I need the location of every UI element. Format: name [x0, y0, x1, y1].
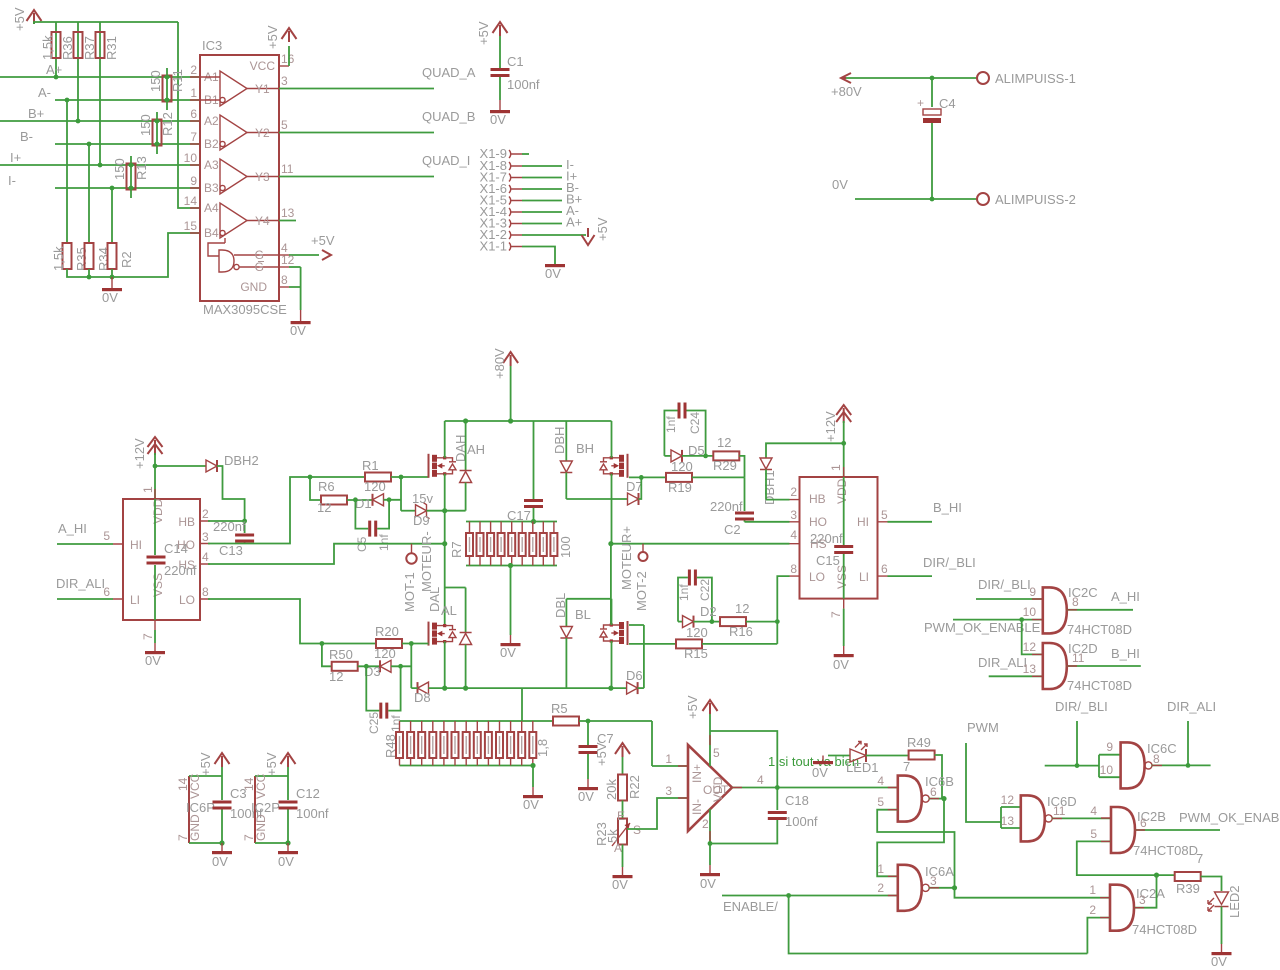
resistor R13	[112, 156, 149, 198]
wire pulldown taps	[67, 100, 112, 244]
diode DBH1	[760, 441, 846, 505]
svg-text:VSS: VSS	[835, 565, 849, 589]
svg-text:PWM_OK_ENABLE: PWM_OK_ENABLE	[924, 620, 1041, 635]
svg-text:0V: 0V	[278, 854, 294, 869]
svg-text:HI: HI	[130, 538, 142, 552]
wire latch cross-couple A	[877, 810, 954, 888]
resistor R49	[903, 735, 942, 799]
svg-text:+5V: +5V	[594, 742, 609, 766]
svg-text:BL: BL	[575, 607, 591, 622]
svg-text:0V: 0V	[212, 854, 228, 869]
svg-text:0V: 0V	[833, 657, 849, 672]
svg-text:C18: C18	[785, 793, 809, 808]
svg-text:LI: LI	[130, 593, 140, 607]
wire HO row right driver	[745, 521, 790, 523]
ground for LED1	[812, 756, 833, 781]
svg-text:Y2: Y2	[255, 126, 270, 140]
svg-text:G: G	[255, 260, 264, 274]
capacitor C24 1nf	[664, 403, 706, 456]
svg-text:220nf: 220nf	[810, 531, 843, 546]
svg-text:QUAD_A: QUAD_A	[422, 65, 476, 80]
connector X1-5	[480, 192, 583, 208]
svg-text:3: 3	[930, 874, 937, 888]
svg-text:100: 100	[558, 536, 573, 558]
svg-text:HO: HO	[809, 515, 827, 529]
ground 0V below LED2	[1211, 952, 1232, 969]
diode D3	[364, 660, 411, 679]
svg-text:QUAD_I: QUAD_I	[422, 153, 470, 168]
svg-text:AL: AL	[441, 603, 457, 618]
wire +5V to C1	[499, 36, 501, 68]
wire +80V to ALIMPUISS-1	[846, 76, 977, 81]
wire HB row right driver	[766, 499, 790, 501]
output QUAD_B	[279, 109, 475, 133]
svg-text:DBH2: DBH2	[224, 453, 259, 468]
svg-text:7: 7	[190, 130, 197, 144]
svg-text:R5: R5	[551, 701, 568, 716]
svg-text:D6: D6	[626, 668, 643, 683]
output PWM_OK_ENABLE	[1135, 810, 1280, 830]
LED LED1	[828, 742, 909, 776]
svg-text:74HCT08D: 74HCT08D	[1132, 922, 1197, 937]
svg-text:B_HI: B_HI	[1111, 646, 1140, 661]
wire R23 wiper to comparator	[627, 798, 688, 829]
wire AL source	[444, 642, 446, 689]
svg-text:10: 10	[1100, 763, 1114, 777]
svg-text:150: 150	[112, 158, 127, 180]
svg-text:220nf: 220nf	[164, 563, 197, 578]
pin 16 VCC	[250, 25, 297, 73]
ground 0V below R23	[612, 875, 633, 892]
resistor R20 120	[374, 624, 429, 661]
svg-text:D2: D2	[700, 604, 717, 619]
svg-text:4: 4	[1090, 804, 1097, 818]
junction dots left network	[54, 75, 170, 191]
svg-text:R6: R6	[318, 479, 335, 494]
svg-text:0V: 0V	[578, 789, 594, 804]
diode DBH2	[155, 453, 259, 533]
svg-text:8: 8	[202, 585, 209, 599]
output QUAD_I	[279, 153, 470, 177]
wire gate net to D8	[410, 644, 412, 689]
resistor R6 12	[310, 477, 373, 515]
resistor R39	[1175, 851, 1222, 896]
svg-text:B3: B3	[204, 181, 219, 195]
wire to IC2D pin12	[1022, 620, 1043, 655]
svg-text:LED1: LED1	[846, 760, 879, 775]
wire +12V to pin1	[153, 453, 158, 499]
capacitor C7	[578, 719, 614, 804]
svg-text:R19: R19	[668, 480, 692, 495]
diode D5	[664, 443, 704, 462]
svg-text:ENABLE/: ENABLE/	[723, 899, 778, 914]
svg-text:AH: AH	[467, 442, 485, 457]
NAND gate IC6B	[898, 776, 929, 822]
output QUAD_A	[279, 65, 476, 89]
svg-text:120: 120	[364, 479, 386, 494]
svg-text:7: 7	[829, 611, 843, 618]
svg-text:0V: 0V	[523, 797, 539, 812]
svg-text:13: 13	[1001, 814, 1015, 828]
svg-text:+5V: +5V	[476, 21, 491, 45]
ground 0V below R48	[523, 766, 543, 813]
connector X1-3	[480, 215, 583, 231]
resistor R11	[148, 68, 185, 110]
comparator opamp	[665, 745, 764, 831]
svg-text:12: 12	[1001, 793, 1015, 807]
svg-text:C13: C13	[219, 543, 243, 558]
svg-text:5: 5	[877, 795, 884, 809]
wire IC6C output	[1152, 763, 1211, 768]
svg-text:+5V: +5V	[685, 695, 700, 719]
+5V above C1	[476, 21, 508, 45]
svg-text:R20: R20	[375, 624, 399, 639]
capacitor C13 220nf	[213, 519, 254, 558]
node ENABLE/	[722, 893, 1087, 953]
svg-text:C1: C1	[507, 54, 524, 69]
svg-text:LO: LO	[179, 593, 195, 607]
diode D6	[626, 668, 644, 694]
pin 12 Gbar	[255, 253, 301, 274]
enable gate inside IC3	[208, 238, 279, 272]
svg-text:HI: HI	[857, 515, 869, 529]
svg-text:VSS: VSS	[151, 573, 165, 597]
svg-text:ALIMPUISS-2: ALIMPUISS-2	[995, 192, 1076, 207]
svg-text:X1-1: X1-1	[480, 239, 507, 254]
wire resistor taps	[56, 22, 100, 165]
svg-text:2: 2	[190, 63, 197, 77]
wire IC6C input	[1045, 763, 1099, 768]
svg-text:S: S	[633, 823, 641, 837]
svg-text:BH: BH	[576, 441, 594, 456]
svg-text:R49: R49	[907, 735, 931, 750]
svg-text:7: 7	[1196, 851, 1203, 866]
IC IC3 box	[200, 38, 287, 317]
svg-text:A-: A-	[38, 85, 51, 100]
wire BL drain to R15 row	[629, 625, 644, 688]
svg-text:12: 12	[735, 601, 749, 616]
node A-	[38, 85, 200, 100]
svg-text:8: 8	[790, 562, 797, 576]
ground 0V below C12	[278, 843, 298, 869]
ground 0V below comparator	[700, 873, 720, 891]
potentiometer R23 5k	[594, 809, 641, 875]
+80V arrow left	[831, 73, 862, 99]
svg-text:14: 14	[184, 194, 198, 208]
svg-text:12: 12	[1023, 640, 1037, 654]
+80V supply	[492, 348, 518, 421]
mosfet AH	[429, 454, 457, 478]
svg-text:15v: 15v	[412, 491, 433, 506]
svg-text:MAX3095CSE: MAX3095CSE	[203, 302, 287, 317]
pin 8 GND	[240, 267, 300, 310]
svg-text:0V: 0V	[612, 877, 628, 892]
svg-text:D7: D7	[626, 479, 643, 494]
svg-text:VCC: VCC	[254, 773, 268, 799]
svg-text:R13: R13	[134, 156, 149, 180]
svg-text:74HCT08D: 74HCT08D	[1067, 678, 1132, 693]
svg-text:Y3: Y3	[255, 170, 270, 184]
pin 4 G out to +5V	[255, 233, 335, 262]
wire BH gate row	[629, 475, 666, 480]
resistor R37	[74, 32, 98, 60]
svg-text:6: 6	[1140, 816, 1147, 830]
connector X1-8	[480, 157, 574, 173]
AND gate IC2D	[1043, 643, 1067, 689]
ground 0V below IC3	[290, 310, 311, 338]
svg-text:11: 11	[1053, 804, 1066, 818]
connector X1-1 to ground	[480, 239, 555, 265]
NAND gate IC6D	[1001, 807, 1021, 828]
svg-text:1: 1	[141, 486, 155, 493]
svg-text:1: 1	[190, 86, 197, 100]
svg-text:120: 120	[686, 625, 708, 640]
svg-text:+5V: +5V	[265, 25, 280, 49]
connector X1-6	[480, 180, 579, 196]
node PWM	[966, 720, 1001, 822]
svg-text:C22: C22	[698, 579, 712, 601]
svg-text:DIR_ALI: DIR_ALI	[1167, 699, 1216, 714]
capacitor C5 1nf	[355, 500, 391, 552]
mosfet BL	[600, 621, 628, 645]
resistor R12	[138, 112, 175, 154]
svg-text:4: 4	[790, 528, 797, 542]
svg-text:C12: C12	[296, 786, 320, 801]
svg-text:IC6P: IC6P	[186, 800, 215, 815]
svg-text:2: 2	[1089, 903, 1096, 917]
svg-text:12: 12	[317, 500, 331, 515]
svg-text:0V: 0V	[500, 645, 516, 660]
svg-text:B_HI: B_HI	[933, 500, 962, 515]
svg-text:1nf: 1nf	[377, 534, 391, 551]
svg-text:IC6C: IC6C	[1147, 741, 1177, 756]
svg-text:D8: D8	[414, 690, 431, 705]
diode DAL	[460, 633, 472, 689]
svg-text:VCC: VCC	[188, 773, 202, 799]
buffer channel 4	[220, 203, 279, 238]
connector X1-9	[480, 146, 529, 161]
node DIR_ALI input	[978, 655, 1043, 676]
resistor R35	[51, 243, 89, 271]
svg-text:DIR_ALI: DIR_ALI	[56, 576, 105, 591]
svg-text:6: 6	[930, 785, 937, 799]
svg-text:DIR/_BLI: DIR/_BLI	[1055, 699, 1108, 714]
pin stubs left IC3	[190, 77, 200, 233]
output B_HI	[1067, 646, 1141, 666]
diode D7	[626, 477, 643, 505]
svg-text:10: 10	[184, 151, 198, 165]
svg-text:IN+: IN+	[690, 764, 704, 783]
svg-text:4: 4	[757, 773, 764, 787]
svg-text:0V: 0V	[545, 266, 561, 281]
capacitor C18 100nf	[708, 793, 818, 873]
node DIR/_BLI stub	[1055, 699, 1108, 766]
svg-text:R39: R39	[1176, 881, 1200, 896]
+12V supply right driver	[823, 405, 851, 477]
AND gate IC2C	[1043, 587, 1067, 633]
svg-text:GND: GND	[254, 814, 268, 841]
svg-text:IC3: IC3	[202, 38, 222, 53]
svg-text:3: 3	[790, 508, 797, 522]
capacitor C2 220nf	[710, 477, 754, 537]
svg-text:B-: B-	[20, 129, 33, 144]
svg-text:+5V: +5V	[311, 233, 335, 248]
svg-text:0V: 0V	[700, 876, 716, 891]
diode DBH	[552, 421, 572, 499]
svg-text:0V: 0V	[290, 323, 306, 338]
svg-text:13: 13	[1023, 662, 1037, 676]
terminal ALIMPUISS-1	[977, 71, 1076, 86]
svg-text:LO: LO	[809, 570, 825, 584]
wire +80V rail	[445, 418, 612, 423]
svg-text:1,5k: 1,5k	[40, 35, 55, 60]
svg-text:LED2: LED2	[1227, 885, 1242, 918]
capacitor C3 100nf	[213, 767, 263, 846]
resistor R36	[40, 32, 75, 60]
svg-text:R50: R50	[329, 647, 353, 662]
svg-text:B2: B2	[204, 137, 219, 151]
svg-text:0V: 0V	[490, 112, 506, 127]
wire DAL drain jog	[445, 544, 466, 632]
svg-text:7: 7	[903, 759, 910, 774]
capacitor C1 100nf	[491, 54, 540, 92]
svg-text:+12V: +12V	[132, 438, 147, 469]
buffer channel 3	[220, 159, 279, 194]
terminal ALIMPUISS-2	[977, 192, 1076, 207]
svg-text:LI: LI	[859, 570, 869, 584]
svg-text:1: 1	[1089, 883, 1096, 897]
wire latch cross-couple B	[877, 799, 944, 877]
node B+	[0, 106, 200, 121]
diode D2	[678, 604, 717, 628]
svg-text:11: 11	[1072, 651, 1085, 665]
svg-text:+5V: +5V	[595, 217, 610, 241]
svg-text:GND: GND	[240, 280, 267, 294]
svg-text:DIR_ALI: DIR_ALI	[978, 655, 1027, 670]
svg-text:D1: D1	[355, 496, 372, 511]
resistor R15 120	[629, 625, 777, 661]
svg-text:13: 13	[281, 206, 295, 220]
node A+	[0, 62, 200, 77]
svg-text:R15: R15	[684, 646, 708, 661]
svg-text:R16: R16	[729, 624, 753, 639]
svg-text:MOTEUR+: MOTEUR+	[619, 526, 634, 590]
svg-text:PWM: PWM	[967, 720, 999, 735]
node DIR/_BLI input	[976, 577, 1043, 599]
wire HS row to MOTEUR+	[608, 541, 789, 546]
connector X1-7	[480, 169, 578, 185]
wire bottom return rail	[411, 686, 626, 691]
capacitor C12 100nf	[279, 767, 329, 846]
node I-	[8, 173, 200, 188]
+5V comparator supply	[685, 695, 718, 719]
buffer channel 1	[200, 71, 279, 106]
node PWM_OK_ENABLE input	[924, 605, 1043, 635]
IC driver box (C14)	[103, 486, 210, 640]
svg-text:6: 6	[190, 107, 197, 121]
node DIR/_BLI	[888, 555, 976, 576]
svg-text:0V: 0V	[832, 177, 848, 192]
svg-text:120: 120	[374, 646, 396, 661]
svg-text:4: 4	[202, 550, 209, 564]
svg-text:A2: A2	[204, 114, 219, 128]
svg-text:5: 5	[881, 508, 888, 522]
svg-text:5k: 5k	[605, 829, 620, 843]
IC driver box (C15)	[790, 464, 889, 618]
svg-text:VDD: VDD	[835, 478, 849, 504]
svg-text:R48: R48	[383, 734, 398, 758]
resistor R50 12	[322, 644, 380, 685]
svg-text:B4: B4	[204, 226, 219, 240]
ground 0V below C3	[212, 843, 232, 869]
svg-text:150: 150	[138, 114, 153, 136]
capacitor C14 220nf inside	[147, 499, 197, 620]
svg-text:100nf: 100nf	[507, 77, 540, 92]
svg-text:2: 2	[877, 881, 884, 895]
capacitor C4	[917, 78, 956, 199]
svg-text:DAL: DAL	[427, 587, 442, 612]
svg-text:R35: R35	[74, 247, 89, 271]
wire LO pin8 right driver	[775, 576, 790, 644]
svg-text:3: 3	[281, 74, 288, 88]
svg-text:3: 3	[665, 784, 672, 798]
capacitor C22 1nf	[677, 570, 712, 622]
svg-text:Y1: Y1	[255, 82, 270, 96]
LED LED2	[1208, 885, 1242, 952]
svg-text:+80V: +80V	[831, 84, 862, 99]
svg-text:10: 10	[1023, 605, 1037, 619]
AND gate IC2A	[1110, 885, 1134, 931]
ground 0V below C1	[490, 110, 510, 127]
svg-text:D9: D9	[413, 513, 430, 528]
svg-text:0V: 0V	[102, 290, 118, 305]
svg-text:QUAD_B: QUAD_B	[422, 109, 475, 124]
capacitor C25 1nf	[366, 666, 403, 734]
svg-text:R12: R12	[160, 112, 175, 136]
wire HO pin3 to gate node	[208, 475, 366, 544]
mosfet AL	[429, 622, 457, 646]
wire MOTEUR+ column to BL	[566, 544, 611, 625]
net label 1 si tout va bien	[768, 754, 859, 769]
svg-text:100nf: 100nf	[785, 814, 818, 829]
svg-text:GND: GND	[188, 814, 202, 841]
svg-text:I+: I+	[10, 150, 21, 165]
node I+	[0, 150, 200, 165]
pin numbers left IC3	[184, 63, 198, 233]
power symbol IC2P	[242, 773, 288, 843]
ground 0V below driver	[145, 630, 165, 668]
svg-text:2: 2	[790, 485, 797, 499]
svg-text:IN-: IN-	[690, 799, 704, 815]
node MOTEUR- label	[419, 531, 434, 592]
diode D8	[414, 682, 431, 705]
capacitor C15 220nf inside	[810, 477, 853, 599]
+5V above R22	[594, 742, 630, 766]
svg-text:9: 9	[1029, 585, 1036, 599]
resistor R31	[96, 32, 120, 60]
wire LO pin8 to R20	[208, 599, 376, 646]
pin names left IC3	[204, 70, 219, 240]
svg-text:MOT-2: MOT-2	[634, 571, 649, 611]
svg-text:+5V: +5V	[264, 752, 279, 776]
capacitor C17 100	[507, 421, 543, 524]
wire IC2A output to R39	[1134, 875, 1157, 908]
svg-text:4: 4	[877, 774, 884, 788]
wire bottom rail to B4	[67, 233, 200, 279]
svg-text:1nf: 1nf	[389, 715, 403, 732]
svg-text:E: E	[617, 809, 625, 823]
svg-text:R29: R29	[713, 458, 737, 473]
